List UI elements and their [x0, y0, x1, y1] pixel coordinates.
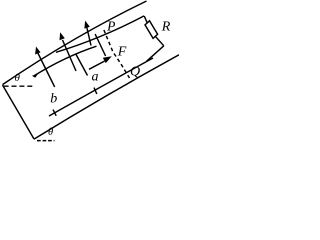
tick mark mid on lower border — [94, 88, 97, 94]
rod at P — [95, 34, 106, 56]
flux arrow head 2 — [60, 32, 65, 40]
incline top edge — [3, 1, 147, 85]
rod a — [76, 54, 88, 76]
wire corner to Q — [147, 46, 164, 62]
wire rail lower — [34, 46, 97, 76]
resistor R body — [145, 21, 158, 39]
arrowhead on lower rail end — [32, 74, 38, 78]
wire corner to resistor top — [144, 16, 147, 23]
flux arrow head 3 — [84, 21, 89, 29]
svg-text:Q: Q — [130, 65, 140, 80]
flux arrow 3 shaft — [87, 26, 92, 46]
dashed horizontal at left theta — [4, 85, 33, 87]
svg-text:P: P — [106, 19, 115, 34]
svg-text:θ: θ — [48, 127, 53, 138]
dashed horizontal at bottom theta — [37, 140, 55, 142]
flux arrow head 1 — [35, 47, 40, 55]
svg-text:a: a — [92, 70, 99, 85]
svg-text:b: b — [50, 92, 57, 107]
wire rail upper (P to resistor corner) — [56, 16, 144, 52]
incline surface lower border — [49, 58, 153, 116]
flux arrow 2 shaft — [63, 40, 77, 71]
tick mark left on lower border — [53, 110, 56, 116]
wire resistor bottom lead — [155, 36, 164, 46]
incline bottom edge — [34, 55, 179, 139]
svg-text:F: F — [117, 45, 127, 60]
svg-text:θ: θ — [14, 72, 20, 84]
rod b — [37, 51, 55, 88]
svg-text:R: R — [161, 19, 171, 34]
force F arrow shaft — [89, 61, 105, 69]
force F arrow head — [103, 56, 112, 63]
incline left edge — [3, 85, 35, 139]
dashed guide line through P — [104, 30, 130, 78]
